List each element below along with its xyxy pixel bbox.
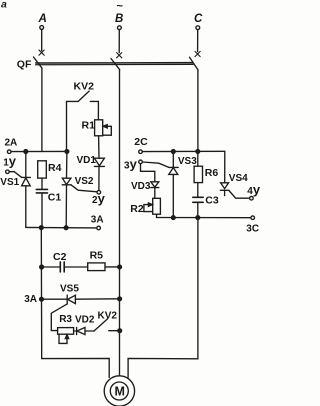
node 3Y terminal: [139, 160, 143, 164]
svg-text:VD1: VD1: [77, 155, 97, 166]
svg-text:KV2: KV2: [74, 81, 95, 93]
resistor R5: [88, 263, 118, 271]
wire motor left feed: [42, 358, 110, 377]
svg-text:a: a: [1, 0, 7, 11]
resistor R6: [194, 151, 202, 196]
svg-text:A: A: [38, 13, 47, 25]
svg-text:R1: R1: [82, 120, 96, 132]
wire 2A row: [11, 150, 67, 152]
node B terminal: [117, 26, 122, 58]
svg-text:3A: 3A: [91, 215, 104, 226]
svg-text:R4: R4: [48, 162, 62, 174]
diode VD1: [94, 158, 104, 190]
wire VS5 gate: [51, 304, 67, 331]
svg-text:M: M: [115, 384, 125, 398]
node 2C terminal: [139, 150, 143, 154]
svg-text:VD2: VD2: [75, 314, 95, 325]
svg-text:VS2: VS2: [75, 176, 94, 187]
svg-text:C: C: [194, 13, 203, 25]
node junction VS5/B line: [118, 297, 122, 301]
circuit breaker QF linkage bar: [36, 63, 194, 65]
node 3C terminal: [251, 216, 255, 220]
capacitor C3: [193, 197, 203, 217]
motor M: [104, 376, 134, 406]
node 4Y terminal: [250, 196, 254, 200]
svg-text:C1: C1: [48, 192, 62, 204]
wire VS3 gate: [143, 162, 169, 167]
node junction R5/B line: [118, 265, 122, 269]
node 2A terminal: [7, 150, 11, 154]
svg-text:R5: R5: [90, 249, 104, 261]
node junction VS5 left: [40, 297, 44, 301]
wire 3Y to VD3: [141, 164, 155, 182]
wire left vertical below 3A row: [40, 228, 42, 359]
svg-text:3A: 3A: [24, 294, 37, 305]
svg-text:1y: 1y: [3, 153, 17, 168]
wire phase A vertical: [41, 68, 43, 151]
contact KV2 upper: [67, 91, 99, 151]
node 3A terminal: [97, 226, 101, 230]
svg-text:VS3: VS3: [178, 156, 197, 167]
svg-text:R6: R6: [205, 167, 219, 179]
diode VD2: [77, 327, 94, 334]
svg-text:KV2: KV2: [98, 310, 118, 321]
svg-text:3y: 3y: [124, 156, 138, 171]
node junction VS2 bottom: [64, 226, 68, 230]
node junction VS3 top: [171, 150, 175, 154]
wire VS4 gate: [229, 191, 250, 199]
node 2Y terminal: [97, 191, 101, 195]
node junction C1 bottom: [39, 226, 43, 230]
resistor R3 (adjustable): [58, 328, 77, 344]
wire 1Y gate: [9, 172, 21, 178]
wire motor right feed: [128, 218, 198, 378]
svg-text:VS5: VS5: [60, 284, 79, 295]
resistor R2 (adjustable): [144, 198, 161, 217]
svg-text:VS1: VS1: [0, 177, 19, 188]
svg-text:2C: 2C: [134, 136, 148, 148]
node junction KV2/B line: [118, 329, 122, 333]
contact KV2 lower: [94, 319, 118, 331]
thyristor VS1: [21, 152, 30, 228]
capacitor C1: [36, 189, 47, 227]
svg-text:4y: 4y: [247, 182, 260, 197]
wire phase C vertical: [197, 70, 199, 151]
node junction C2 left: [40, 265, 44, 269]
node junction C3 bottom: [196, 216, 200, 220]
node C terminal: [195, 26, 200, 57]
wire bottom row left section: [26, 226, 97, 229]
svg-text:C2: C2: [53, 251, 67, 263]
svg-text:~: ~: [117, 1, 124, 13]
svg-text:VD3: VD3: [131, 181, 151, 192]
wire 2C row: [143, 150, 225, 152]
wire VS2 gate: [71, 185, 97, 192]
svg-text:3C: 3C: [246, 223, 259, 234]
QF pole C lever: [190, 57, 199, 70]
node junction VS1 top: [24, 150, 28, 154]
node junction VS2/KV2 top: [65, 150, 69, 154]
svg-text:R3: R3: [59, 314, 72, 325]
QF pole A lever: [34, 57, 43, 68]
capacitor C2: [42, 262, 88, 272]
wire 3C row: [157, 217, 251, 219]
thyristor VS2: [62, 151, 71, 227]
thyristor VS5: [43, 295, 118, 304]
QF pole B lever: [111, 59, 120, 70]
thyristor VS3: [169, 152, 179, 218]
svg-text:2y: 2y: [92, 191, 106, 206]
diode VD3: [151, 182, 159, 199]
svg-text:QF: QF: [17, 58, 32, 70]
node A terminal: [39, 26, 44, 56]
svg-text:C3: C3: [205, 195, 219, 207]
node junction R6 top: [196, 150, 200, 154]
resistor R1 (adjustable): [95, 120, 112, 158]
svg-text:2A: 2A: [5, 138, 18, 149]
svg-text:VS4: VS4: [229, 173, 248, 184]
resistor R4: [38, 161, 47, 189]
svg-text:B: B: [115, 13, 123, 25]
wire phase B vertical: [119, 70, 121, 376]
svg-text:R2: R2: [130, 203, 144, 215]
node 1Y terminal: [6, 170, 10, 174]
thyristor VS4: [220, 151, 229, 195]
node junction VS3 bottom: [171, 216, 175, 220]
